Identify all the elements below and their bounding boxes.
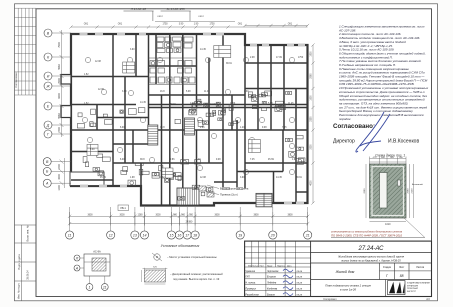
svg-text:28.06.24: 28.06.24: [27, 270, 30, 280]
left axis bubbles lower: [51, 161, 71, 163]
svg-text:КУРГАНСКИЙ: КУРГАНСКИЙ: [407, 284, 419, 287]
svg-text:3000: 3000: [119, 214, 125, 216]
svg-text:2560: 2560: [311, 73, 313, 79]
pit hatched boxes: [199, 186, 206, 191]
svg-text:Копировал: Копировал: [324, 297, 337, 301]
svg-text:6.00: 6.00: [120, 159, 125, 161]
svg-text:6.00: 6.00: [120, 127, 125, 129]
svg-text:А3: А3: [426, 297, 430, 301]
windows bottom wall: [80, 185, 304, 205]
svg-text:1750: 1750: [162, 23, 168, 25]
door dimension lines: [366, 157, 425, 238]
svg-text:5.08: 5.08: [268, 103, 273, 105]
svg-text:11.45: 11.45: [288, 103, 294, 105]
door note red text: [331, 230, 403, 238]
svg-text:1.20: 1.20: [196, 159, 201, 161]
left vertical dimension chain: [60, 30, 65, 188]
plumbing fixtures cluster top-center: [77, 37, 305, 200]
svg-text:14.45: 14.45: [140, 102, 146, 104]
axis bubble Д: [44, 121, 52, 129]
svg-text:2100: 2100: [411, 188, 413, 194]
svg-text:Елсуков: Елсуков: [267, 277, 276, 279]
svg-text:ОК1: ОК1: [238, 23, 243, 25]
svg-text:27.24-АС: 27.24-АС: [357, 246, 384, 252]
svg-text:16.8: 16.8: [160, 91, 165, 93]
svg-text:И.В.Косенков: И.В.Косенков: [388, 139, 419, 145]
svg-text:3600: 3600: [87, 214, 93, 216]
svg-text:– Место установки стиральной м: – Место установки стиральной машины: [167, 255, 217, 259]
svg-text:1.52: 1.52: [84, 74, 89, 76]
svg-text:3.30: 3.30: [90, 149, 95, 151]
svg-text:3000: 3000: [155, 214, 161, 216]
svg-text:12.08: 12.08: [98, 89, 104, 91]
svg-text:Взам. инв. №: Взам. инв. №: [26, 225, 30, 241]
svg-text:17.09: 17.09: [276, 57, 282, 59]
svg-text:3300: 3300: [311, 144, 313, 150]
svg-text:под окнами. Высота кирпич.См.: под окнами. Высота кирпич.См. л. 19: [173, 277, 220, 281]
small dimension texts in plan: [84, 49, 304, 179]
axis bubble 17: [183, 231, 191, 239]
svg-text:14.45: 14.45: [200, 49, 206, 51]
svg-text:38.8: 38.8: [160, 127, 165, 129]
svg-text:3600: 3600: [214, 214, 220, 216]
entrance stair bottom right: [256, 193, 272, 206]
bottom axis bubbles: [69, 207, 71, 231]
detail axis bubbles: [80, 258, 105, 284]
local reference circles in plan: [82, 57, 294, 174]
axis bubble 19: [236, 231, 244, 239]
porch bottom-left: [70, 172, 104, 186]
svg-text:ГАП: ГАП: [245, 276, 250, 279]
svg-text:17.09: 17.09: [210, 104, 216, 106]
svg-text:11: 11: [68, 233, 72, 237]
svg-text:Алюминий: Алюминий: [412, 183, 424, 186]
svg-text:09.24: 09.24: [297, 270, 303, 273]
shaft boxes top-center: [157, 37, 164, 42]
svg-text:А: А: [45, 182, 49, 186]
axis bubble В: [44, 29, 52, 37]
svg-text:ПО 5943-2-2005, СТБ ПО Н44Р-20: ПО 5943-2-2005, СТБ ПО Н44Р-2005, ГОСТ 3…: [331, 233, 403, 237]
door handle: [398, 180, 401, 186]
svg-text:3.90: 3.90: [130, 49, 135, 51]
svg-text:1280: 1280: [137, 214, 143, 216]
svg-text:15: 15: [170, 233, 174, 237]
svg-text:11.45: 11.45: [204, 91, 210, 93]
svg-text:И: И: [47, 74, 50, 78]
svg-text:3000: 3000: [58, 174, 61, 180]
wall detail fragment: [84, 254, 110, 276]
svg-text:№док: №док: [267, 264, 272, 267]
section cut flag 2: [161, 7, 205, 21]
svg-text:2400: 2400: [58, 164, 61, 170]
axis bubble Ж: [44, 82, 52, 90]
svg-text:7.45: 7.45: [282, 127, 287, 129]
svg-text:Листов: Листов: [416, 266, 424, 269]
axis bubble В: [43, 158, 51, 166]
svg-text:порядок.: порядок.: [339, 117, 351, 121]
windows top wall: [80, 33, 306, 47]
svg-text:Жилой дом: Жилой дом: [335, 270, 355, 274]
svg-text:09.24: 09.24: [297, 293, 303, 296]
svg-text:6000: 6000: [58, 93, 61, 99]
porch left upper: [61, 75, 71, 85]
porch left lower: [61, 106, 71, 118]
svg-text:9.08: 9.08: [216, 159, 221, 161]
svg-text:Багров: Багров: [267, 294, 275, 296]
axis bubble 18: [191, 231, 199, 239]
svg-text:жилых домов по ул.Карьерной г: жилых домов по ул.Карьерной г. Курган, Н…: [340, 258, 401, 262]
axis bubble И: [44, 72, 52, 80]
svg-text:14.45: 14.45: [276, 177, 282, 179]
left axis bubbles and leaders: [52, 32, 71, 34]
svg-text:ОК1: ОК1: [118, 23, 123, 25]
svg-text:3.90: 3.90: [122, 91, 127, 93]
svg-text:Ж: Ж: [45, 84, 50, 88]
svg-text:в осях 1а-2б: в осях 1а-2б: [340, 288, 356, 292]
svg-text:45.69: 45.69: [100, 177, 106, 179]
svg-text:19: 19: [238, 233, 242, 237]
svg-text:1.52: 1.52: [160, 177, 165, 179]
svg-text:9.08: 9.08: [262, 127, 267, 129]
svg-text:М: М: [156, 255, 158, 259]
svg-text:12.08: 12.08: [95, 61, 101, 63]
axis bubble 15: [167, 231, 175, 239]
svg-text:1: 1: [89, 285, 91, 289]
svg-text:2700: 2700: [58, 127, 61, 133]
svg-text:Согласовано: Согласовано: [14, 72, 18, 88]
svg-text:1.52: 1.52: [84, 103, 89, 105]
svg-text:3800: 3800: [287, 214, 293, 216]
svg-text:16.8: 16.8: [252, 105, 257, 107]
title block texts: [248, 246, 425, 291]
svg-text:Приямок (2шт): Приямок (2шт): [220, 193, 238, 197]
axis bubble 12: [107, 231, 115, 239]
svg-text:3.30: 3.30: [244, 91, 249, 93]
svg-text:38.8: 38.8: [140, 159, 145, 161]
svg-text:Инв. № подл.: Инв. № подл.: [17, 283, 21, 299]
svg-text:1750: 1750: [209, 23, 215, 25]
svg-text:45.69: 45.69: [268, 159, 274, 161]
svg-text:ОК1Л: ОК1Л: [157, 16, 163, 18]
right dimension chain: [311, 43, 314, 204]
svg-text:24380: 24380: [186, 221, 193, 224]
svg-text:21: 21: [305, 233, 310, 237]
detail bubble 11: [101, 284, 108, 291]
svg-text:ОК1Л: ОК1Л: [198, 16, 204, 18]
svg-text:1.90: 1.90: [194, 23, 199, 25]
door glazing panel: [380, 173, 388, 209]
detail bubble 1: [86, 284, 93, 291]
left margin approval table: [15, 8, 37, 95]
interior walls: [71, 34, 308, 206]
svg-text:88: 88: [400, 274, 404, 278]
svg-text:1.20: 1.20: [240, 127, 245, 129]
svg-text:5.08: 5.08: [186, 91, 191, 93]
svg-text:Подпись: Подпись: [277, 265, 285, 267]
svg-text:Лист: Лист: [399, 266, 405, 269]
svg-text:2.08: 2.08: [250, 57, 255, 59]
svg-text:Кол.уч: Кол.уч: [253, 265, 259, 267]
svg-text:38.91: 38.91: [296, 177, 302, 179]
title block names rows: [245, 270, 302, 297]
svg-text:2250: 2250: [311, 116, 313, 122]
svg-text:2080: 2080: [364, 188, 366, 194]
svg-text:АС-9А: АС-9А: [93, 249, 101, 253]
svg-text:3800: 3800: [253, 214, 259, 216]
svg-text:1750: 1750: [230, 103, 236, 105]
svg-text:1.98: 1.98: [130, 177, 135, 179]
svg-text:1200: 1200: [58, 185, 61, 191]
general notes text block: [338, 25, 429, 121]
svg-text:7.45: 7.45: [250, 159, 255, 161]
axis bubble Б: [43, 167, 51, 175]
svg-text:ПРОЕКТНЫЙ: ПРОЕКТНЫЙ: [407, 287, 418, 290]
svg-text:1010: 1010: [385, 223, 391, 226]
title block signatures: [283, 269, 293, 295]
bottom dimension chains: [68, 212, 309, 226]
svg-text:13: 13: [133, 233, 137, 237]
svg-text:ИНСТИТУТ: ИНСТИТУТ: [407, 291, 416, 293]
svg-text:09.24: 09.24: [297, 276, 303, 279]
svg-text:ОК1: ОК1: [288, 23, 293, 25]
svg-text:А: А: [75, 266, 79, 270]
svg-text:20: 20: [270, 233, 275, 237]
svg-text:ХОЛДИНГОВАЯ КОМПАНИЯ: ХОЛДИНГОВАЯ КОМПАНИЯ: [407, 282, 431, 285]
signature ink strokes: [356, 112, 390, 152]
svg-text:1900: 1900: [311, 95, 313, 101]
svg-text:12.08: 12.08: [200, 177, 206, 179]
svg-text:7500: 7500: [58, 42, 61, 48]
detail bubble Л: [74, 255, 80, 261]
svg-text:Л 14 АС-4/8: Л 14 АС-4/8: [130, 7, 147, 11]
axis bubble А: [43, 179, 51, 187]
title block frame: [245, 241, 432, 296]
detail bubble А: [74, 265, 80, 271]
axis bubble 20: [269, 231, 277, 239]
axis bubble 16: [175, 231, 183, 239]
svg-text:18: 18: [193, 233, 197, 237]
svg-text:Н. контр.: Н. контр.: [245, 283, 256, 285]
building outer walls: [71, 34, 308, 206]
svg-text:Чувашов: Чувашов: [245, 271, 255, 273]
svg-text:1.98: 1.98: [292, 159, 297, 161]
axis bubble 14: [140, 231, 148, 239]
svg-text:Л: Л: [75, 256, 79, 260]
svg-text:Директор: Директор: [333, 139, 355, 145]
axis bubble Г: [44, 130, 52, 138]
svg-text:Условные обозначения: Условные обозначения: [161, 244, 200, 248]
svg-text:4000: 4000: [311, 180, 313, 186]
door leaf elevation: [370, 164, 407, 218]
axis bubble 11: [66, 231, 74, 239]
svg-text:ОК1: ОК1: [84, 23, 89, 25]
svg-text:Разработал: Разработал: [245, 294, 259, 296]
svg-text:Жилойдома многоквартирного жил: Жилойдома многоквартирного жилого дома В…: [337, 254, 405, 258]
svg-text:Подп. и дата: Подп. и дата: [17, 254, 21, 270]
svg-text:2080: 2080: [407, 188, 409, 194]
apartment info tables: [87, 46, 260, 179]
svg-text:09.24: 09.24: [297, 288, 303, 291]
elevation mark box: [118, 205, 129, 211]
svg-text:Лист: Лист: [260, 265, 264, 267]
svg-text:2.08: 2.08: [190, 103, 195, 105]
svg-text:2.86: 2.86: [170, 159, 175, 161]
svg-text:12: 12: [109, 233, 113, 237]
svg-text:ЛВ-1: ЛВ-1: [120, 206, 126, 210]
svg-text:5960: 5960: [58, 64, 61, 70]
svg-text:38.91: 38.91: [226, 63, 232, 65]
svg-text:2500: 2500: [58, 78, 61, 84]
svg-text:Стадия: Стадия: [383, 266, 392, 269]
company logo: [388, 281, 431, 295]
section cut flag 1: [124, 7, 164, 21]
legend washing machine symbol: [152, 253, 162, 261]
axis bubble К: [44, 53, 52, 61]
svg-text:Зс 14 АС-4/55: Зс 14 АС-4/55: [167, 7, 185, 11]
svg-text:5960: 5960: [58, 113, 61, 119]
svg-text:Кондеева: Кондеева: [267, 288, 278, 291]
svg-text:3.90: 3.90: [240, 177, 245, 179]
svg-text:14: 14: [143, 233, 147, 237]
svg-text:09.24: 09.24: [297, 282, 303, 285]
underline below door note: [331, 236, 425, 238]
svg-text:Вентиляционная шахта: Вентиляционная шахта: [220, 187, 249, 191]
svg-text:стеклопакеты из многослойного: стеклопакеты из многослойного безопасног…: [331, 230, 402, 234]
svg-text:38.91: 38.91: [170, 104, 176, 106]
stair flight center-right: [185, 118, 195, 135]
left margin inventory boxes: [15, 225, 37, 301]
svg-text:Согласовано:: Согласовано:: [333, 123, 375, 130]
svg-text:1800: 1800: [311, 51, 313, 57]
svg-text:Д: Д: [46, 123, 50, 127]
svg-text:3.90: 3.90: [179, 23, 184, 25]
axis bubble 13: [131, 231, 139, 239]
axis bubble 21: [304, 231, 312, 239]
stair flight center-left: [148, 125, 158, 145]
svg-text:1750: 1750: [298, 57, 304, 59]
svg-text:11: 11: [103, 285, 107, 289]
svg-text:Лебедев: Лебедев: [266, 282, 277, 285]
svg-text:Проверил: Проверил: [245, 289, 256, 291]
entrance stair bottom center: [177, 188, 199, 205]
axis bubble Е: [44, 102, 52, 110]
svg-text:16: 16: [177, 233, 181, 237]
svg-text:– Декоративный элемент, распол: – Декоративный элемент, расположенный: [170, 272, 223, 276]
legend decorative element symbol: [144, 270, 165, 282]
top dimension chain: [69, 22, 309, 29]
svg-text:2.86: 2.86: [200, 127, 205, 129]
svg-text:Чертежов: Чертежов: [267, 271, 279, 273]
